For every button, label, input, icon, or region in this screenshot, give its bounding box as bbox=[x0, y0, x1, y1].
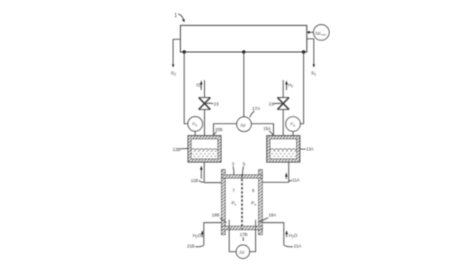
internal drain tube right (19A) bbox=[255, 220, 257, 230]
svg-text:11A: 11A bbox=[292, 177, 299, 182]
S1 arrowhead bbox=[313, 64, 315, 67]
11A horizontal wire bbox=[262, 181, 288, 183]
svg-text:S2: S2 bbox=[171, 70, 176, 76]
svg-text:S1: S1 bbox=[311, 70, 316, 76]
wire cell bottom-left to dp 17B bbox=[229, 230, 236, 252]
svg-text:Δp: Δp bbox=[239, 250, 245, 255]
electrolysis cell left wall 3 bbox=[222, 170, 226, 235]
svg-text:19B: 19B bbox=[212, 213, 220, 218]
svg-text:9: 9 bbox=[252, 188, 255, 193]
separator vessel 13B bbox=[188, 136, 221, 162]
svg-text:17B: 17B bbox=[240, 232, 248, 237]
svg-text:11B: 11B bbox=[191, 178, 198, 183]
wire stack to Pb bbox=[184, 52, 188, 124]
S1 outlet wire bbox=[307, 39, 314, 65]
svg-text:H2O: H2O bbox=[193, 233, 202, 239]
node: stack bottom-left junction bbox=[183, 50, 186, 53]
node on dp_max wire bbox=[308, 31, 310, 33]
svg-text:19A: 19A bbox=[269, 213, 277, 218]
electrolysis cell right wall bbox=[259, 170, 263, 235]
electrolysis cell bottom wall bbox=[222, 226, 263, 230]
svg-text:Δp: Δp bbox=[240, 122, 246, 127]
svg-text:13B: 13B bbox=[173, 147, 181, 152]
sensor Pb bbox=[188, 117, 203, 132]
svg-text:3: 3 bbox=[232, 162, 235, 167]
svg-text:Pa: Pa bbox=[251, 201, 256, 207]
internal drain tube left (19B) bbox=[228, 220, 230, 230]
sensor dp 17B bbox=[236, 245, 249, 258]
sensor Pa bbox=[286, 117, 301, 132]
sensor dp_max bbox=[314, 25, 330, 41]
sensor dp 17A bbox=[237, 117, 252, 132]
svg-text:H2O: H2O bbox=[289, 233, 298, 239]
valve 23 (right) bbox=[277, 98, 289, 110]
electrolysis cell top wall bbox=[222, 175, 263, 178]
11A flow arrow bbox=[285, 177, 287, 179]
svg-text:Pb: Pb bbox=[232, 201, 237, 207]
node: stack bottom-middle junction bbox=[242, 50, 245, 53]
pipe left valve to separator 13B bbox=[204, 110, 206, 137]
wire Pb to separator 13B bbox=[194, 131, 196, 136]
11B flow arrow bbox=[200, 170, 202, 179]
11B horizontal wire bbox=[204, 182, 221, 184]
svg-text:H2: H2 bbox=[288, 82, 293, 88]
pipe right valve to separator 13A bbox=[282, 110, 284, 137]
svg-text:15A: 15A bbox=[263, 126, 271, 131]
svg-text:23: 23 bbox=[214, 102, 219, 107]
H2 outlet pipe bbox=[282, 80, 284, 97]
svg-text:21B: 21B bbox=[187, 244, 195, 249]
H2O right flow arrow bbox=[286, 234, 288, 237]
wire stack to dp sensor 17A bbox=[243, 52, 245, 117]
svg-text:13A: 13A bbox=[306, 147, 314, 152]
pipe 13A down to cell (11A) bbox=[288, 162, 290, 182]
svg-text:17A: 17A bbox=[252, 106, 260, 111]
svg-text:15B: 15B bbox=[215, 127, 223, 132]
H2O left flow arrow bbox=[201, 234, 203, 237]
H2O inlet right (21A) bbox=[262, 223, 284, 246]
svg-text:1: 1 bbox=[174, 13, 177, 19]
wire cell bottom-right to dp 17B bbox=[250, 230, 256, 252]
pipe 13B down to cell (11B) bbox=[203, 162, 205, 183]
wire to dp_max sensor bbox=[307, 31, 314, 33]
S2 outlet wire bbox=[173, 39, 180, 64]
O2 flow arrow bbox=[200, 84, 202, 90]
wire dp17A to 13B gas space (15B) bbox=[214, 124, 237, 143]
H2O inlet left (21B) bbox=[204, 223, 222, 246]
membrane 5 bbox=[241, 175, 243, 230]
electrolyzer stack 1 bbox=[180, 25, 306, 52]
S2 arrowhead bbox=[172, 64, 174, 67]
separator vessel 13A bbox=[267, 136, 300, 162]
H2 flow arrow bbox=[286, 84, 288, 90]
svg-text:5: 5 bbox=[243, 161, 246, 166]
valve 23 (left) bbox=[199, 98, 211, 110]
reference numeral 1 bbox=[174, 13, 185, 23]
svg-text:21A: 21A bbox=[294, 244, 302, 249]
O2 outlet pipe bbox=[204, 80, 206, 97]
node: stack bottom-right junction bbox=[302, 50, 305, 53]
svg-text:7: 7 bbox=[232, 188, 235, 193]
wire dp17A to 13A gas space (15A) bbox=[251, 124, 273, 143]
wire Pa to separator 13A bbox=[292, 131, 294, 136]
wire stack to Pa bbox=[300, 52, 303, 124]
